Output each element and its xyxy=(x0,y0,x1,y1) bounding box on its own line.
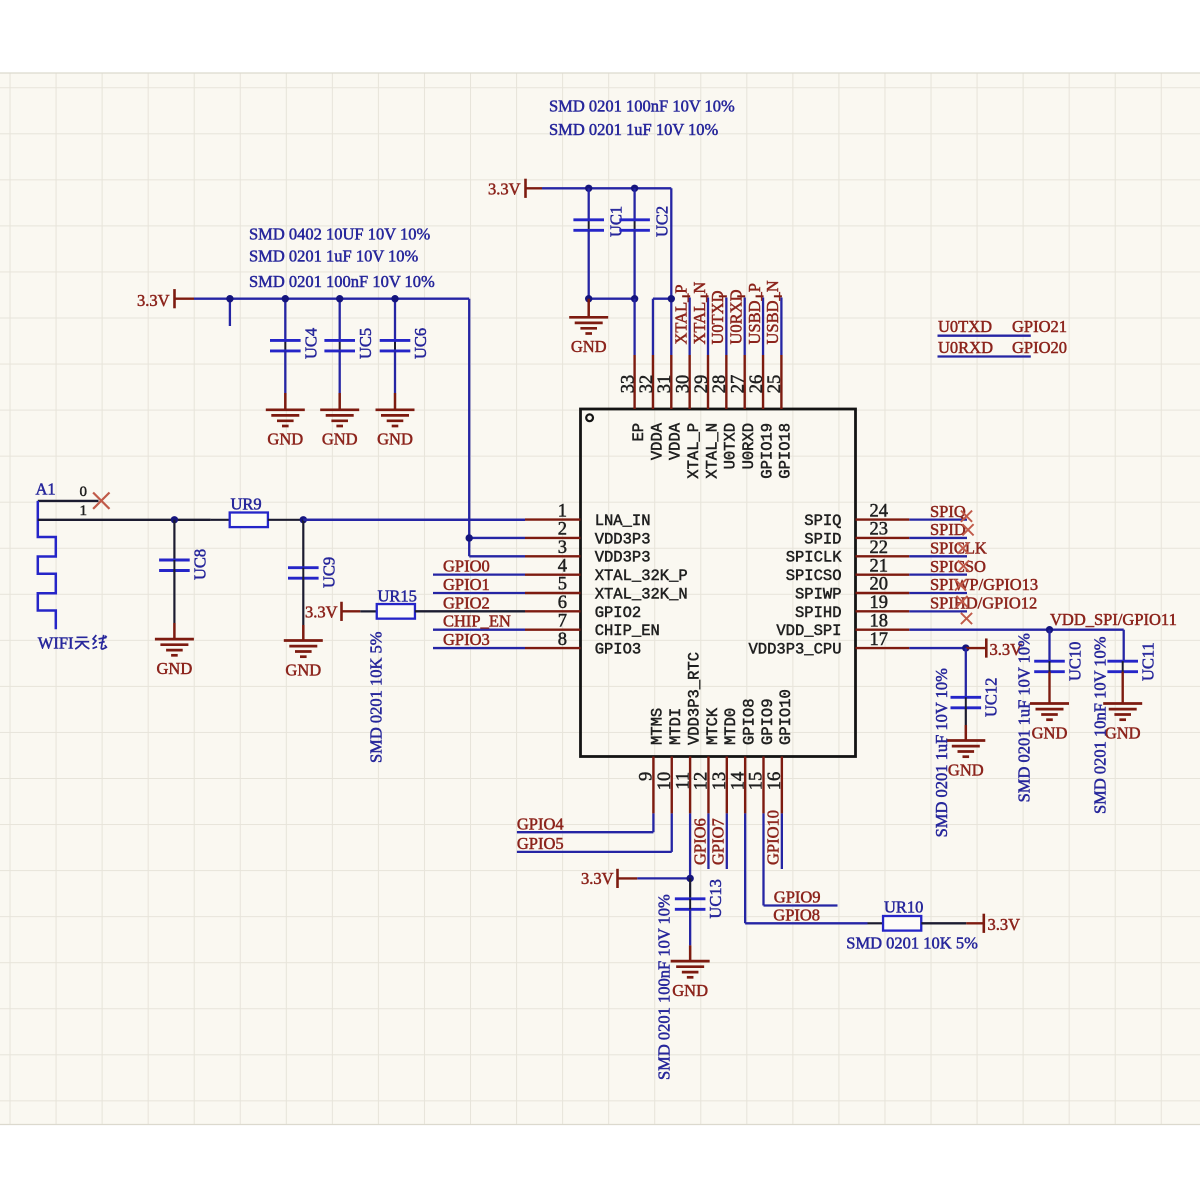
pin 19 SPIHD (right) xyxy=(856,610,910,612)
pin 24 SPIQ (right) xyxy=(856,518,910,520)
pin 13 MTD0 (bottom) xyxy=(726,757,728,814)
svg-text:GPIO8: GPIO8 xyxy=(740,698,758,745)
svg-text:U0TXD: U0TXD xyxy=(938,317,992,336)
net label GPIO9 wire xyxy=(762,813,764,905)
svg-text:U0RXD: U0RXD xyxy=(938,338,993,357)
svg-text:28: 28 xyxy=(710,375,730,394)
no-connect X SPICSO xyxy=(958,560,969,571)
no-connect X SPICLK xyxy=(957,543,968,554)
capacitor UC13 xyxy=(689,878,691,898)
pin 9 MTMS (bottom) xyxy=(652,757,654,814)
antenna A1 meander xyxy=(38,501,56,629)
svg-text:USBD_N: USBD_N xyxy=(763,280,782,344)
svg-text:SMD 0201 1uF 10V 10%: SMD 0201 1uF 10V 10% xyxy=(249,247,419,266)
svg-text:GPIO7: GPIO7 xyxy=(709,818,728,865)
pin 29 XTAL_N (top) xyxy=(707,355,709,409)
svg-text:GPIO4: GPIO4 xyxy=(517,815,564,834)
pin 16 GPIO10 (bottom) xyxy=(781,757,783,814)
svg-text:VDDA: VDDA xyxy=(648,422,666,460)
svg-text:3.3V: 3.3V xyxy=(988,915,1021,934)
node UC1 bottom / GND xyxy=(585,295,592,302)
svg-text:XTAL_32K_N: XTAL_32K_N xyxy=(595,585,688,603)
svg-text:25: 25 xyxy=(765,375,785,394)
svg-text:MTCK: MTCK xyxy=(704,707,722,745)
pin 17 VDD3P3_CPU (right) xyxy=(856,647,910,649)
svg-text:7: 7 xyxy=(558,611,567,631)
capacitor UC1 xyxy=(588,188,590,220)
pin 31 VDDA (top) xyxy=(670,355,672,409)
svg-text:SPIWP/GPIO13: SPIWP/GPIO13 xyxy=(930,575,1038,594)
svg-text:6: 6 xyxy=(558,593,567,613)
capacitor UC2 xyxy=(633,188,635,220)
wire/net label U0TXD (pin 28) xyxy=(725,298,727,356)
svg-text:GPIO21: GPIO21 xyxy=(1012,317,1067,336)
net label GPIO0 wire xyxy=(433,574,525,576)
svg-text:UC1: UC1 xyxy=(607,206,626,237)
node VDDA xyxy=(668,295,675,302)
svg-text:U0RXD: U0RXD xyxy=(740,423,758,470)
wire 3.3V to VDD3P3_RTC xyxy=(637,877,690,879)
wire stub xyxy=(229,299,231,326)
svg-text:UC11: UC11 xyxy=(1139,642,1158,681)
pin 3 VDD3P3 (left) xyxy=(525,555,581,557)
svg-text:GND: GND xyxy=(948,760,984,779)
pin 2 VDD3P3 (left) xyxy=(525,537,581,539)
wire GND rail UC1-UC2-EP xyxy=(589,298,635,300)
svg-text:MTMS: MTMS xyxy=(649,708,667,745)
svg-text:UC12: UC12 xyxy=(982,678,1001,717)
pin 5 XTAL_32K_N (left) xyxy=(525,592,581,594)
capacitor UC10 xyxy=(1048,630,1050,662)
svg-text:SMD 0201 1uF 10V 10%: SMD 0201 1uF 10V 10% xyxy=(932,668,951,838)
net label SPID wire xyxy=(909,537,967,539)
capacitor UC11 xyxy=(1107,660,1138,663)
pin 28 U0TXD (top) xyxy=(725,355,727,409)
svg-text:14: 14 xyxy=(728,772,748,791)
svg-text:GPIO6: GPIO6 xyxy=(690,818,709,865)
pin 30 XTAL_P (top) xyxy=(688,355,690,409)
svg-text:GPIO10: GPIO10 xyxy=(777,689,795,745)
pin 7 CHIP_EN (left) xyxy=(525,629,581,631)
svg-text:SPICSO: SPICSO xyxy=(786,567,842,585)
svg-text:32: 32 xyxy=(637,375,657,394)
svg-text:3: 3 xyxy=(558,538,567,558)
svg-text:WIFI: WIFI xyxy=(38,634,74,653)
svg-text:21: 21 xyxy=(870,556,889,576)
net label GPIO1 wire xyxy=(433,592,525,594)
no-connect X SPIWP xyxy=(955,579,966,590)
svg-text:GND: GND xyxy=(1032,723,1068,742)
svg-text:GPIO2: GPIO2 xyxy=(595,604,642,622)
svg-text:24: 24 xyxy=(870,501,889,521)
svg-text:GPIO9: GPIO9 xyxy=(774,888,821,907)
svg-text:SPID: SPID xyxy=(930,520,966,539)
svg-text:SMD 0201 10nF 10V 10%: SMD 0201 10nF 10V 10% xyxy=(1091,636,1110,814)
net label GPIO5 wire xyxy=(517,851,672,853)
svg-text:SMD 0402 10UF 10V 10%: SMD 0402 10UF 10V 10% xyxy=(249,225,430,244)
svg-text:22: 22 xyxy=(870,538,889,558)
capacitor UC6 xyxy=(394,299,396,341)
svg-text:UC9: UC9 xyxy=(320,557,339,588)
pin 11 VDD3P3_RTC (bottom) xyxy=(689,757,691,814)
node UC4 top xyxy=(282,295,289,302)
svg-text:MTDI: MTDI xyxy=(667,708,685,745)
net label GPIO3 wire xyxy=(433,647,525,649)
node UC10 top xyxy=(1046,626,1053,633)
wire 3.3V rail to VDDA xyxy=(542,187,671,189)
svg-text:12: 12 xyxy=(692,772,712,791)
svg-text:UC6: UC6 xyxy=(411,328,430,359)
svg-text:EP: EP xyxy=(630,423,648,442)
svg-text:GND: GND xyxy=(571,337,607,356)
no-connect X SPIHD xyxy=(956,596,967,607)
glyph tian xyxy=(75,637,90,649)
svg-text:30: 30 xyxy=(673,375,693,394)
svg-text:SPIHD/GPIO12: SPIHD/GPIO12 xyxy=(930,594,1037,613)
net label GPIO7 wire xyxy=(726,813,728,869)
svg-text:VDD3P3: VDD3P3 xyxy=(595,549,651,567)
svg-text:1: 1 xyxy=(80,503,88,519)
wire/net label USBD_N (pin 25) xyxy=(780,298,782,356)
svg-text:XTAL_32K_P: XTAL_32K_P xyxy=(595,567,688,585)
pin 10 MTDI (bottom) xyxy=(671,757,673,814)
svg-text:33: 33 xyxy=(618,375,638,394)
svg-text:XTAL_N: XTAL_N xyxy=(703,423,721,479)
wire/net label U0RXD (pin 27) xyxy=(744,298,746,356)
net label GPIO8 wire xyxy=(744,813,746,923)
svg-text:3.3V: 3.3V xyxy=(305,603,338,622)
pin 4 XTAL_32K_P (left) xyxy=(525,573,581,575)
svg-text:SMD 0201 1uF 10V 10%: SMD 0201 1uF 10V 10% xyxy=(549,120,719,139)
ground (UC1/UC2) xyxy=(587,299,590,317)
svg-text:UC4: UC4 xyxy=(302,328,321,359)
svg-text:UC2: UC2 xyxy=(653,206,672,237)
svg-text:GPIO19: GPIO19 xyxy=(758,423,776,479)
wire UR9 to LNA_IN xyxy=(303,519,525,521)
net label SPICLK wire xyxy=(909,555,967,557)
no-connect X SPIQ xyxy=(961,511,972,522)
pin 21 SPICSO (right) xyxy=(856,573,910,575)
wire antenna to UR9 xyxy=(38,519,211,521)
svg-text:1: 1 xyxy=(558,501,567,521)
wire/net label XTAL_P (pin 30) xyxy=(689,298,691,356)
svg-text:XTAL_P: XTAL_P xyxy=(671,284,690,344)
pin 20 SPIWP (right) xyxy=(856,592,910,594)
svg-text:SMD 0201 100nF 10V 10%: SMD 0201 100nF 10V 10% xyxy=(249,272,435,291)
svg-text:GND: GND xyxy=(322,430,358,449)
svg-text:U0RXD: U0RXD xyxy=(727,289,746,344)
node UC8 top xyxy=(171,516,178,523)
net label SPIHD/GPIO12 wire xyxy=(909,610,967,612)
svg-text:MTD0: MTD0 xyxy=(722,708,740,745)
svg-text:UR9: UR9 xyxy=(231,495,262,514)
svg-text:3.3V: 3.3V xyxy=(581,869,614,888)
node EP rail xyxy=(631,295,638,302)
node stub xyxy=(226,295,233,302)
wire VDD3P3_RTC to UC13 xyxy=(689,813,691,878)
svg-text:SPICSO: SPICSO xyxy=(930,557,986,576)
net label GPIO4 wire xyxy=(517,831,654,833)
pin 1 LNA_IN (left) xyxy=(525,518,581,520)
svg-text:GPIO5: GPIO5 xyxy=(517,834,564,853)
svg-text:13: 13 xyxy=(710,772,730,791)
svg-text:LNA_IN: LNA_IN xyxy=(595,512,651,530)
pin-1 marker circle xyxy=(586,414,593,421)
svg-text:XTAL_P: XTAL_P xyxy=(685,423,703,479)
svg-text:UC13: UC13 xyxy=(706,879,725,918)
capacitor UC8 xyxy=(173,520,175,560)
svg-text:4: 4 xyxy=(558,556,567,576)
net label CHIP_EN wire xyxy=(433,629,525,631)
svg-text:3.3V: 3.3V xyxy=(488,180,521,199)
svg-text:29: 29 xyxy=(692,375,712,394)
svg-text:GND: GND xyxy=(157,659,193,678)
wire VDD3P3 pins 2-3 xyxy=(469,537,525,539)
wire/net label XTAL_N (pin 29) xyxy=(707,298,709,356)
svg-text:GPIO8: GPIO8 xyxy=(773,906,820,925)
svg-text:UR15: UR15 xyxy=(378,587,417,606)
no-connect X SPID xyxy=(962,524,973,535)
wire 3.3V rail (left) xyxy=(194,298,469,300)
net label GPIO10 wire xyxy=(781,813,783,869)
ground (UC12) xyxy=(946,739,985,742)
svg-text:VDD3P3_CPU: VDD3P3_CPU xyxy=(748,640,841,658)
svg-text:SMD 0201 10K 5%: SMD 0201 10K 5% xyxy=(846,934,978,953)
svg-text:10: 10 xyxy=(655,772,675,791)
node UC2 top xyxy=(631,185,638,192)
svg-text:VDD3P3_RTC: VDD3P3_RTC xyxy=(685,652,703,745)
ground (UC4) xyxy=(284,393,287,410)
svg-text:GND: GND xyxy=(672,981,708,1000)
svg-text:GPIO10: GPIO10 xyxy=(764,810,783,865)
svg-text:UR10: UR10 xyxy=(884,898,923,917)
svg-text:VDD_SPI/GPIO11: VDD_SPI/GPIO11 xyxy=(1050,610,1177,629)
svg-text:15: 15 xyxy=(747,772,767,791)
svg-text:19: 19 xyxy=(870,593,889,613)
pin 32 VDDA (top) xyxy=(652,355,654,409)
svg-text:GPIO3: GPIO3 xyxy=(595,640,642,658)
svg-text:GPIO20: GPIO20 xyxy=(1012,338,1067,357)
ground (UC11) xyxy=(1103,702,1142,705)
svg-text:VDD3P3: VDD3P3 xyxy=(595,530,651,548)
wire U0RXD-GPIO20 xyxy=(938,355,1031,357)
svg-text:SPIHD: SPIHD xyxy=(795,604,842,622)
ground (UC9) xyxy=(302,625,305,640)
svg-text:GPIO0: GPIO0 xyxy=(443,557,490,576)
pin 25 GPIO18 (top) xyxy=(780,355,782,409)
svg-text:2: 2 xyxy=(558,520,567,540)
svg-text:UC10: UC10 xyxy=(1066,642,1085,681)
svg-text:5: 5 xyxy=(558,575,567,595)
ground (UC5) xyxy=(338,393,341,410)
node UC6 top xyxy=(391,295,398,302)
svg-text:27: 27 xyxy=(729,375,749,394)
svg-text:17: 17 xyxy=(870,630,889,650)
capacitor UC4 xyxy=(284,299,286,341)
node UC12 top xyxy=(962,644,969,651)
pin 14 GPIO8 (bottom) xyxy=(744,757,746,814)
svg-text:11: 11 xyxy=(673,772,693,790)
svg-text:A1: A1 xyxy=(36,479,56,498)
svg-text:20: 20 xyxy=(870,575,889,595)
svg-text:8: 8 xyxy=(558,630,567,650)
svg-text:SPID: SPID xyxy=(804,530,841,548)
capacitor UC12 xyxy=(965,648,967,697)
net label SPICSO wire xyxy=(909,574,967,576)
pin 22 SPICLK (right) xyxy=(856,555,910,557)
pin 12 MTCK (bottom) xyxy=(707,757,709,814)
svg-text:VDD_SPI: VDD_SPI xyxy=(776,622,841,640)
wire VDD3P3_CPU xyxy=(909,647,966,649)
glyph xian xyxy=(93,635,107,649)
svg-text:GPIO3: GPIO3 xyxy=(443,630,490,649)
svg-text:SMD 0201 100nF 10V 10%: SMD 0201 100nF 10V 10% xyxy=(655,894,674,1080)
svg-text:CHIP_EN: CHIP_EN xyxy=(595,622,660,640)
svg-text:31: 31 xyxy=(655,375,675,394)
svg-text:CHIP_EN: CHIP_EN xyxy=(443,612,511,631)
svg-text:UC5: UC5 xyxy=(356,328,375,359)
svg-text:16: 16 xyxy=(765,772,785,791)
svg-text:SPICLK: SPICLK xyxy=(786,549,843,567)
svg-text:SPIQ: SPIQ xyxy=(804,512,841,530)
pin 23 SPID (right) xyxy=(856,537,910,539)
svg-text:GND: GND xyxy=(1105,723,1141,742)
svg-text:GND: GND xyxy=(285,660,321,679)
wire U0TXD-GPIO21 xyxy=(938,335,1031,337)
svg-text:0: 0 xyxy=(80,484,88,500)
pin 27 U0RXD (top) xyxy=(744,355,746,409)
svg-text:SPIWP: SPIWP xyxy=(795,585,842,603)
ground (UC6) xyxy=(394,393,397,410)
svg-text:USBD_P: USBD_P xyxy=(745,283,764,344)
pin 8 GPIO3 (left) xyxy=(525,647,581,649)
node VDD3P3 xyxy=(466,534,473,541)
svg-text:GPIO18: GPIO18 xyxy=(777,423,795,479)
capacitor UC9 xyxy=(302,520,304,568)
wire VDD_SPI xyxy=(909,629,1123,631)
wire LNA_IN (pin 1) xyxy=(303,519,525,521)
svg-text:26: 26 xyxy=(747,375,767,394)
svg-text:SMD 0201 1uF 10V 10%: SMD 0201 1uF 10V 10% xyxy=(1015,633,1034,803)
wire/net label USBD_P (pin 26) xyxy=(762,298,764,356)
svg-text:23: 23 xyxy=(870,520,889,540)
capacitor UC5 xyxy=(339,299,341,341)
svg-text:XTAL_N: XTAL_N xyxy=(690,282,709,345)
svg-text:SMD 0201 10K 5%: SMD 0201 10K 5% xyxy=(367,631,386,763)
svg-text:GPIO9: GPIO9 xyxy=(759,698,777,745)
svg-text:SPICLK: SPICLK xyxy=(930,539,987,558)
pin 6 GPIO2 (left) xyxy=(525,610,581,612)
svg-text:GND: GND xyxy=(267,430,303,449)
pin 18 VDD_SPI (right) xyxy=(856,629,910,631)
wire EP to rail xyxy=(633,299,635,355)
svg-text:GND: GND xyxy=(377,430,413,449)
power flag 3.3V (UR10) xyxy=(966,922,984,924)
svg-text:GPIO2: GPIO2 xyxy=(443,593,490,612)
svg-text:18: 18 xyxy=(870,611,889,631)
op-amp U1 ESP32 body xyxy=(581,409,856,757)
ground (UC13) xyxy=(689,945,692,960)
net label GPIO6 wire xyxy=(707,813,709,869)
node UC9 top xyxy=(300,516,307,523)
svg-text:UC8: UC8 xyxy=(191,549,210,580)
node UC5 top xyxy=(336,295,343,302)
pin 26 GPIO19 (top) xyxy=(762,355,764,409)
pin 15 GPIO9 (bottom) xyxy=(762,757,764,814)
no-connect X on pin 0 xyxy=(93,493,109,509)
net label SPIWP/GPIO13 wire xyxy=(909,592,967,594)
svg-text:SMD 0201 100nF 10V 10%: SMD 0201 100nF 10V 10% xyxy=(549,97,735,116)
power flag 3.3V (pin 17) xyxy=(966,647,987,649)
node UC13 top xyxy=(686,875,693,882)
pin 33 EP (top) xyxy=(633,355,635,409)
no-connect X SPIHD wire end xyxy=(961,613,972,624)
net label SPIQ wire xyxy=(909,518,967,520)
wire VDDA branch xyxy=(653,298,671,300)
svg-text:U0TXD: U0TXD xyxy=(722,423,740,470)
node UC1 top xyxy=(585,185,592,192)
svg-text:3.3V: 3.3V xyxy=(137,291,170,310)
ground (UC8) xyxy=(173,623,176,639)
svg-text:GPIO1: GPIO1 xyxy=(443,575,490,594)
svg-text:9: 9 xyxy=(637,772,657,781)
ground (UC10) xyxy=(1030,702,1069,705)
svg-text:U0TXD: U0TXD xyxy=(708,290,727,344)
svg-text:VDDA: VDDA xyxy=(667,422,685,460)
